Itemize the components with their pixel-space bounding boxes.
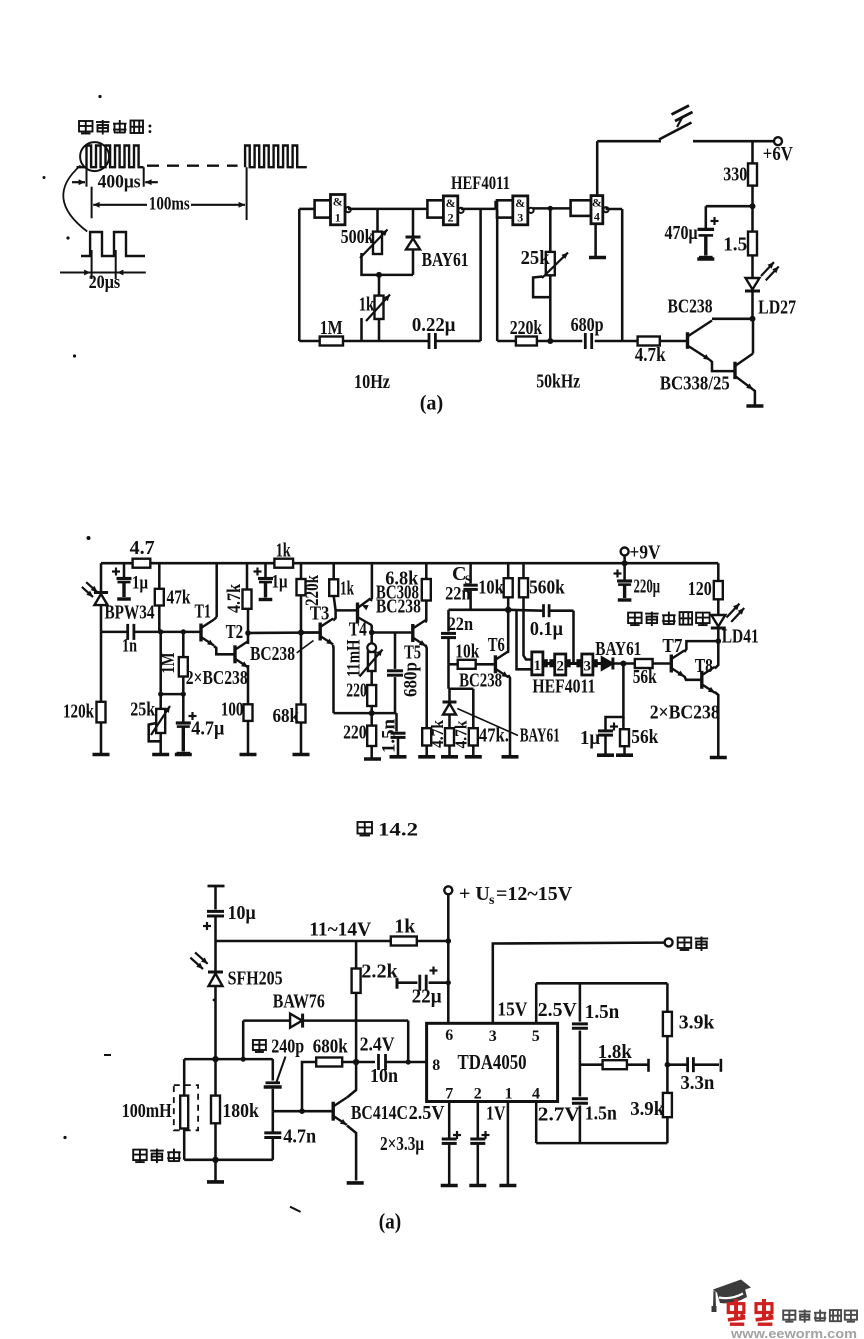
resistor 1M mid (179, 657, 188, 676)
label 输出 (678, 937, 709, 952)
capacitor 1.5n (391, 713, 406, 755)
label BC238 top (668, 296, 713, 318)
svg-text:47k: 47k (167, 587, 192, 609)
label BC238 T3 with leader (250, 641, 314, 666)
svg-text:0.1μ: 0.1μ (530, 618, 564, 640)
svg-text:4.7: 4.7 (130, 537, 155, 559)
svg-text:220μ: 220μ (634, 576, 661, 598)
svg-text:10Hz: 10Hz (354, 371, 390, 393)
label 11mH rotated (344, 639, 365, 677)
svg-text:2×BC238: 2×BC238 (650, 702, 720, 724)
transistor T1 (201, 620, 214, 646)
inductor 100mH (180, 1096, 188, 1129)
svg-text:T7: T7 (662, 635, 682, 657)
wire BAW76 left vert (242, 1021, 245, 1060)
transistor Q2 BC338/25 (735, 354, 753, 390)
label 4.7k rot second (452, 720, 471, 748)
transistor T2 (235, 641, 248, 667)
svg-text:100mH: 100mH (122, 1100, 172, 1122)
inductor 11mH adjustable (360, 633, 383, 686)
branch 3.3n (665, 1059, 721, 1072)
svg-text:10k: 10k (455, 641, 480, 663)
label 2.5V left (409, 1102, 445, 1124)
emitter bus wire (334, 712, 397, 715)
wire Q2 emitter down (753, 390, 755, 405)
label 100mH (122, 1100, 172, 1122)
potentiometer 500k (360, 230, 388, 275)
label 4.7k rot first (428, 720, 447, 748)
wire 1M to node (181, 677, 186, 697)
svg-text:15V: 15V (497, 999, 527, 1021)
node SFH/180k (212, 1056, 218, 1062)
label 2.2k (361, 961, 398, 983)
transistor Q3 BC414C (333, 1098, 347, 1125)
ground 25k (152, 753, 169, 757)
svg-text:4: 4 (594, 209, 600, 223)
wire left drop to 120k (100, 632, 103, 702)
svg-text:3: 3 (489, 1028, 497, 1045)
label 3.9k bottom (630, 1098, 665, 1120)
transistor Q1 BC238 (688, 321, 713, 361)
wire 25k to ground (159, 733, 162, 754)
svg-text:220k: 220k (302, 575, 323, 606)
wire SFH to junction (214, 986, 217, 1060)
resistor 10k vert (504, 563, 513, 610)
capacitor 22μ (420, 967, 438, 991)
label 约240p (253, 1036, 304, 1058)
label 1k bottom (394, 916, 416, 938)
wire T7 collector (684, 641, 718, 652)
svg-text:22n: 22n (445, 584, 471, 605)
capacitor 4.7n (264, 1111, 281, 1160)
svg-text:HEF4011: HEF4011 (451, 173, 510, 194)
resistor 56k first (635, 659, 653, 668)
bottom coil wire (184, 1159, 273, 1162)
dimension 400μs (72, 167, 158, 192)
resistor 1.8k (603, 1060, 627, 1069)
ground 470μ (697, 257, 714, 261)
antenna stub (208, 886, 225, 910)
capacitor 1.5n top (572, 1024, 588, 1028)
resistor 220k mid (297, 563, 306, 632)
resistor 220 second (367, 713, 376, 746)
svg-text:1μ: 1μ (132, 573, 148, 594)
label 220 first (346, 680, 367, 702)
resistor 47k (155, 563, 164, 632)
svg-text:(a): (a) (420, 390, 444, 414)
capacitor 3.3μ second (470, 1131, 489, 1143)
wire T7 emitter to T8 (684, 676, 702, 680)
label 500k (341, 226, 375, 248)
svg-text:T5: T5 (404, 642, 421, 664)
svg-text:T8: T8 (695, 655, 713, 677)
wire to T3 base (301, 631, 319, 634)
svg-text:2: 2 (448, 210, 454, 224)
terminal +6V (774, 137, 782, 145)
label 或继电器等 (628, 612, 710, 627)
label 22n second (448, 614, 474, 635)
label BC338/25 (660, 373, 730, 395)
capacitor 1n (128, 624, 134, 640)
wire 1.5 to LED (751, 255, 754, 277)
dashed continuation line (147, 164, 238, 166)
svg-text:1M: 1M (320, 317, 343, 339)
svg-text:220: 220 (346, 680, 367, 702)
label (a) bottom (379, 1209, 402, 1234)
wire 56k to T7 (653, 662, 670, 665)
ground T8 (710, 756, 727, 760)
svg-text:560k: 560k (529, 577, 565, 599)
resistor 3.9k bottom (663, 1093, 672, 1117)
label 10n (370, 1065, 398, 1087)
wire 25k vertical top (549, 208, 552, 252)
resistor 120 (714, 581, 723, 599)
svg-text:25k: 25k (521, 247, 551, 269)
svg-text:11mH: 11mH (344, 639, 365, 677)
node BAW76 left (241, 1057, 246, 1062)
label T2 (226, 621, 244, 643)
label BAW76 (273, 991, 325, 1013)
label HEF4011 mid (532, 676, 595, 698)
capacitor 220μ (614, 563, 633, 600)
transistor T5 (413, 620, 426, 646)
label T3 (310, 603, 330, 625)
ground left (93, 753, 110, 757)
svg-text:180k: 180k (222, 1100, 259, 1122)
label 1M (320, 317, 343, 339)
wire +6V down to 330 (751, 141, 754, 163)
wire 560k to gate1 (524, 597, 532, 659)
label 470μ (665, 222, 699, 244)
wire T8 collector (715, 641, 719, 668)
stray dash (63, 999, 300, 1212)
svg-text:1k: 1k (276, 540, 292, 562)
wire 22n down to diode net (449, 664, 474, 688)
label 10k T6 (455, 641, 480, 663)
wire 10n to pin8 (386, 1059, 427, 1064)
svg-text:5: 5 (532, 1028, 540, 1045)
transistor T8 (702, 667, 715, 693)
watermark 虫虫 red (728, 1299, 774, 1324)
photodiode SFH205 (190, 952, 223, 986)
wire gate3 feedback vertical (496, 210, 499, 341)
svg-text:25k: 25k (130, 699, 156, 721)
label 68k (273, 705, 300, 727)
capacitor 680p top (585, 333, 591, 349)
node 2.2k/680k/10n (353, 1059, 359, 1065)
top coil wire (184, 1058, 273, 1061)
label 10k vert (478, 577, 504, 599)
caption 图 14.2 (358, 820, 419, 841)
svg-text:2: 2 (474, 1086, 482, 1103)
label 1μ third (580, 727, 601, 749)
label LD41 (722, 626, 759, 648)
resistor 220 first (367, 685, 376, 706)
shield dashed box (174, 1085, 198, 1130)
potentiometer 1k (362, 295, 391, 342)
svg-text:4.7k: 4.7k (635, 344, 667, 366)
wire pin2 down (477, 1102, 480, 1185)
capacitor 10μ (203, 911, 224, 941)
ground 100 (240, 753, 257, 757)
label 4.7k top (635, 344, 667, 366)
wire switch to +6V terminal (693, 140, 774, 143)
svg-text:BC238: BC238 (459, 670, 502, 692)
bottom rail 11-14V (216, 940, 450, 943)
bottom rail block2 (497, 340, 637, 343)
label T8 (695, 655, 713, 677)
wire collector horizontal Q1 (712, 318, 753, 321)
wire gate4 top to switch rail (597, 141, 661, 195)
svg-text:LD41: LD41 (722, 626, 759, 648)
capacitor 22n second (441, 610, 456, 665)
wire node down to 68k (300, 633, 303, 705)
label 22μ (412, 986, 443, 1008)
svg-text:(a): (a) (379, 1209, 402, 1234)
node 10k/Cs (505, 607, 511, 613)
svg-text:T4: T4 (349, 619, 367, 641)
svg-text:680k: 680k (313, 1036, 349, 1058)
ground Q2 (746, 404, 763, 408)
svg-text:1.5n: 1.5n (379, 719, 400, 753)
diode BAY61 out (602, 658, 613, 670)
LED LD41 (711, 604, 744, 628)
capacitor 1μ first (112, 563, 132, 599)
wire 220 to node (369, 706, 375, 716)
label BC414C (351, 1102, 408, 1124)
wire signal T2 to T3 (248, 631, 319, 634)
svg-text:20μs: 20μs (89, 272, 121, 293)
wire 25k node link (161, 693, 184, 696)
wire T8 emitter down (715, 692, 719, 756)
wire 1k bottom (378, 319, 381, 341)
wire 500k branch vertical (376, 209, 379, 232)
wire T4 collector node (369, 624, 375, 635)
svg-text:1k: 1k (394, 916, 416, 938)
wire pin4 down (535, 1102, 538, 1144)
label 6.8k (385, 568, 419, 590)
terminal output (665, 938, 673, 946)
network mid vertical (579, 983, 582, 1143)
resistor 1k bottom (391, 937, 417, 946)
svg-text:6: 6 (445, 1027, 453, 1044)
label 2xBC238 right (650, 702, 720, 724)
branch 1.8k (580, 1059, 649, 1072)
wire 330 to 1.5 (750, 186, 756, 232)
watermark cap icon (712, 1280, 752, 1313)
wire T1 collector up (214, 563, 217, 619)
ground 68k (293, 753, 310, 757)
zoom leader arc (63, 166, 87, 232)
wire BPW34 to base line (100, 605, 103, 632)
svg-text:4: 4 (532, 1086, 540, 1103)
wire ground first (425, 746, 428, 756)
label 560k (529, 577, 565, 599)
svg-text:s: s (489, 893, 495, 908)
wire 25k vertical (158, 632, 163, 709)
label 1.5n top (585, 1001, 620, 1023)
svg-text:500k: 500k (341, 226, 375, 248)
pin numbers (432, 1027, 540, 1103)
ground 220 (364, 757, 381, 761)
resistor 560k (519, 563, 528, 597)
svg-text:400μs: 400μs (98, 171, 141, 192)
svg-text:10n: 10n (370, 1065, 398, 1087)
wire 68k to ground (300, 723, 303, 754)
svg-text::: : (147, 117, 153, 137)
switch pushbutton (659, 106, 693, 140)
wire jog into gate3 (496, 202, 498, 209)
gate U1c (497, 196, 534, 225)
resistor 10k T6 base (449, 660, 494, 669)
resistor 120k (97, 702, 106, 723)
svg-text:680p: 680p (571, 314, 604, 336)
wire pin1 down (507, 1102, 510, 1185)
label 1μ first (132, 573, 148, 594)
wire T1 emitter to T2 base (214, 646, 234, 654)
label T1 (195, 601, 212, 623)
wire 4.7k to Q1 base (660, 340, 686, 343)
waveform 20μs detail (81, 232, 145, 256)
ground coil (207, 1180, 224, 1184)
wire T5 collector (424, 601, 427, 623)
resistor 1k rail (274, 559, 293, 568)
wire Q2 collector up (752, 319, 755, 354)
wire gate3 out (533, 207, 571, 210)
label BAY61 mid leader (457, 709, 559, 747)
wire cap to right vertical (436, 340, 481, 343)
wire T4 base (336, 609, 356, 612)
svg-text:3: 3 (584, 659, 592, 675)
wire 220 second ground (370, 746, 373, 758)
label 4.7 (130, 537, 155, 559)
label 220 second (343, 722, 367, 744)
svg-text:BC338/25: BC338/25 (660, 373, 730, 395)
potentiometer 25k (533, 252, 568, 297)
svg-text:&: & (592, 196, 602, 210)
wire T5 base (372, 631, 412, 634)
svg-text:120: 120 (688, 578, 712, 600)
wire Q3 emitter down (347, 1126, 356, 1181)
wire 120k to ground (100, 722, 103, 753)
svg-text:1k: 1k (359, 294, 375, 316)
label 0.1μ (530, 618, 564, 640)
gate G3 small (582, 654, 593, 675)
svg-text:3.9k: 3.9k (679, 1012, 715, 1034)
svg-text:330: 330 (723, 163, 747, 185)
svg-text:8: 8 (432, 1057, 440, 1074)
svg-text:BAY61: BAY61 (595, 638, 641, 660)
resistor 4.7k top (638, 337, 660, 346)
svg-text:680p: 680p (401, 662, 422, 697)
svg-text:BAY61: BAY61 (422, 249, 469, 271)
wire LED to collector node (750, 292, 756, 322)
wire T3 emitter down (332, 645, 335, 713)
capacitor 470μ (698, 206, 719, 257)
svg-text:2×BC238: 2×BC238 (186, 667, 248, 689)
svg-text:1: 1 (335, 210, 341, 224)
label BAY61 out (595, 638, 641, 660)
svg-text:+9V: +9V (630, 542, 661, 564)
resistor 47k bottom (469, 689, 478, 746)
ground 47k (465, 746, 482, 757)
node wire Cs (449, 609, 509, 612)
capacitor Cs 22n (463, 563, 477, 610)
ground T6 (502, 755, 519, 759)
wire pin3 output (493, 943, 665, 1024)
wire second gate1 input (517, 610, 532, 670)
network top line (536, 982, 667, 985)
svg-text:2.7V: 2.7V (538, 1104, 581, 1126)
label BC308 (376, 582, 419, 604)
svg-text:T3: T3 (310, 603, 330, 625)
wire T4 emitter up (371, 563, 372, 601)
svg-text:&: & (333, 195, 343, 209)
wire node to 1k (378, 275, 381, 296)
label 10μ (228, 902, 257, 924)
label 1k rail (276, 540, 292, 562)
resistor 4.7k bottom second (445, 728, 454, 745)
base wire with 1n (101, 631, 200, 634)
svg-text:HEF4011: HEF4011 (532, 676, 595, 698)
potentiometer 25k mid (149, 706, 170, 741)
svg-text:1V: 1V (486, 1103, 506, 1125)
label 11~14V (309, 919, 372, 941)
ground 1μ third (597, 753, 614, 757)
svg-text:470μ: 470μ (665, 222, 699, 244)
wire T5 emitter down (426, 645, 427, 728)
svg-text:1μ: 1μ (580, 727, 601, 749)
svg-text:3.9k: 3.9k (630, 1098, 665, 1120)
resistor 4.7 rail (133, 559, 151, 568)
ground pin7 (441, 1184, 458, 1188)
svg-text:BC238: BC238 (376, 596, 421, 618)
label T7 (662, 635, 682, 657)
node 220k base T3 (298, 630, 304, 636)
wire block2 right vertical (621, 209, 624, 341)
label 4.7n (283, 1126, 316, 1148)
LED LD27 (745, 262, 779, 291)
resistor 4.7k bottom first (422, 728, 431, 745)
ground 1.5n (390, 755, 407, 759)
label (a) top (420, 390, 444, 414)
wire pin7 down (448, 1102, 451, 1185)
label 220μ (634, 576, 661, 598)
svg-text:2.4V: 2.4V (360, 1034, 395, 1056)
svg-text:4.7k: 4.7k (224, 584, 245, 613)
ground first 4.7k (418, 755, 435, 759)
svg-text:10k: 10k (478, 577, 504, 599)
node 25k on base wire (158, 629, 163, 634)
resistor 680k (302, 1058, 342, 1112)
svg-text:56k: 56k (633, 666, 658, 688)
label T4 (349, 619, 367, 641)
label +9V (630, 542, 661, 564)
capacitor 1μ third (598, 723, 618, 754)
resistor 2.2k (352, 941, 361, 1062)
label 220k rotated (302, 575, 323, 606)
label 2x3.3μ (380, 1133, 425, 1155)
label 3.9k top (679, 1012, 715, 1034)
waveform burst 1 (77, 146, 144, 168)
svg-text:SFH205: SFH205 (228, 968, 283, 990)
wire T6 emitter down (508, 675, 510, 756)
svg-text:220k: 220k (510, 317, 543, 339)
ground pin1 (499, 1184, 516, 1188)
label 25k mid (130, 699, 156, 721)
svg-text:BC414C: BC414C (351, 1102, 408, 1124)
wire diode to 56k (614, 661, 635, 667)
